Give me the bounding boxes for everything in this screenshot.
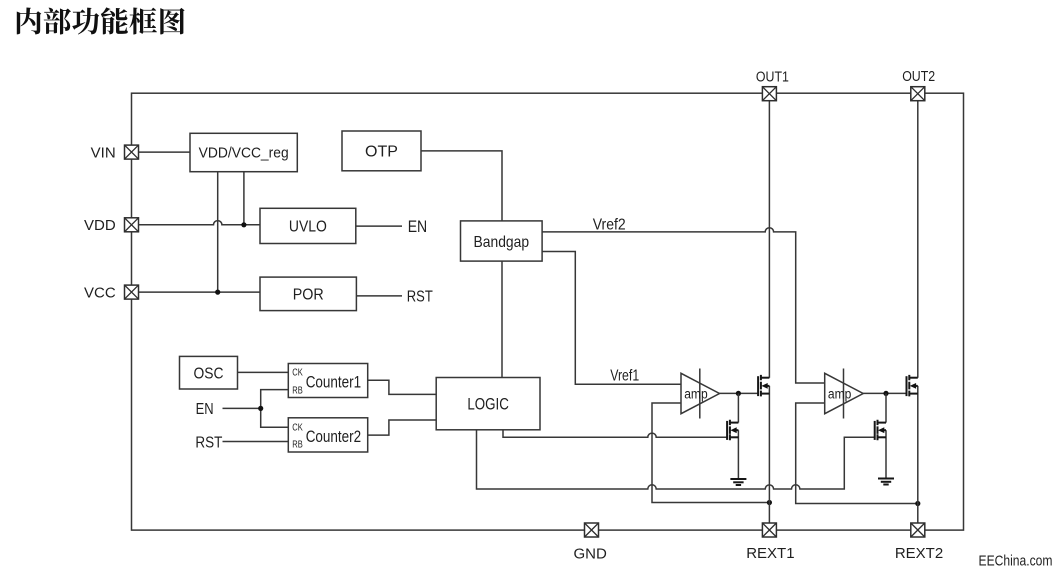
wire VDD to UVLO (hop over reg output): [139, 221, 261, 225]
pin OUT2: [911, 87, 925, 101]
block LOGIC: [436, 378, 540, 430]
pin REXT2: [911, 523, 925, 537]
svg-text:VDD: VDD: [84, 217, 116, 234]
transistor Q1 drain stub: [761, 377, 770, 379]
svg-text:Counter1: Counter1: [306, 374, 362, 392]
wire Q4 drain to amp2 output node: [885, 393, 887, 422]
svg-text:REXT2: REXT2: [895, 545, 943, 562]
pin OUT1: [762, 87, 776, 101]
wire amp U2 feedback from OUT2 node: [796, 403, 918, 504]
transistor Q2 body arrow: [730, 427, 738, 433]
wire Q4 source to ground: [885, 430, 887, 479]
svg-text:OSC: OSC: [194, 366, 224, 383]
wire amp U1 feedback from OUT1 node: [652, 403, 769, 503]
junction OUT2/feedback: [915, 501, 920, 506]
transistor Q4 drain stub: [878, 422, 887, 424]
block Bandgap: [461, 221, 543, 261]
junction OUT1/feedback: [767, 500, 772, 505]
transistor Q1 gate bar: [757, 376, 759, 396]
wire Counter2 to LOGIC: [368, 420, 437, 435]
transistor Q3 channel: [908, 375, 910, 397]
transistor Q1 body arrow: [761, 383, 769, 389]
wire Vref2 to amp U2 (hop over OUT1): [542, 228, 825, 383]
transistor Q3 body arrow: [910, 383, 918, 389]
wire reg output right (to VDD line): [243, 172, 245, 225]
wire OUT1 vertical upper: [768, 100, 770, 378]
title 内部功能框图: [17, 7, 185, 34]
svg-text:EN: EN: [408, 218, 428, 236]
svg-text:CK: CK: [292, 422, 303, 433]
wire VCC to POR: [139, 291, 261, 293]
svg-text:RB: RB: [292, 386, 303, 397]
wire OUT2 vertical lower to REXT2: [917, 386, 919, 523]
svg-text:POR: POR: [293, 287, 324, 304]
svg-text:Bandgap: Bandgap: [474, 234, 530, 251]
svg-text:Vref1: Vref1: [610, 368, 639, 385]
wire Vref1 to amp U1: [542, 252, 681, 385]
transistor Q3 source stub: [909, 393, 918, 395]
wire UVLO to EN: [356, 225, 402, 227]
block OSC: [180, 356, 238, 389]
svg-text:RB: RB: [292, 440, 303, 451]
wire Q2 drain to amp1 output node: [737, 393, 739, 422]
svg-text:OTP: OTP: [365, 144, 398, 161]
svg-text:amp: amp: [828, 387, 852, 402]
wire OUT2 vertical upper: [917, 100, 919, 378]
op-amp U1: [681, 369, 720, 419]
ground G2: [878, 479, 894, 485]
transistor Q3 gate bar: [906, 376, 908, 396]
wire VIN to VDD/VCC_reg: [139, 151, 191, 153]
wire OUT1 vertical lower to REXT1: [768, 386, 770, 523]
junction reg/VCC: [215, 290, 220, 295]
svg-text:EEChina.com: EEChina.com: [979, 553, 1053, 570]
junction EN node: [258, 406, 263, 411]
transistor Q4 body arrow: [878, 427, 886, 433]
junction amp2 out: [883, 391, 888, 396]
wire OTP to Bandgap: [421, 151, 502, 221]
block Counter2: [288, 418, 367, 452]
wire amp U1 output to Q1 gate: [720, 392, 759, 394]
wire Counter1 to LOGIC: [368, 380, 437, 394]
wire OSC to Counter1 CK: [238, 371, 289, 373]
block OTP: [342, 131, 421, 171]
transistor Q2 gate bar: [726, 421, 728, 440]
junction reg/VDD: [241, 222, 246, 227]
svg-text:OUT1: OUT1: [756, 68, 789, 85]
svg-text:VDD/VCC_reg: VDD/VCC_reg: [199, 146, 289, 162]
wire EN input: [223, 407, 261, 409]
wire EN branch to Counter1 RB and Counter2 CK: [261, 390, 289, 428]
svg-text:VIN: VIN: [91, 144, 116, 161]
pin VIN: [125, 145, 139, 159]
svg-text:VCC: VCC: [84, 284, 116, 301]
svg-text:Vref2: Vref2: [593, 217, 626, 234]
transistor Q1 channel: [760, 375, 762, 397]
wire amp U2 output to Q3 gate: [863, 392, 906, 394]
op-amp U2: [825, 369, 864, 419]
svg-text:GND: GND: [574, 546, 608, 563]
svg-text:EN: EN: [196, 401, 214, 418]
pin REXT1: [762, 523, 776, 537]
svg-text:amp: amp: [684, 387, 708, 402]
transistor Q2 channel: [729, 420, 731, 440]
svg-text:CK: CK: [292, 368, 303, 379]
transistor Q4 source stub: [878, 436, 887, 438]
pin VDD: [125, 218, 139, 232]
wire reg output left (to VCC line): [217, 172, 219, 292]
svg-text:Counter2: Counter2: [306, 428, 362, 446]
transistor Q4 gate bar: [874, 421, 876, 440]
svg-text:RST: RST: [407, 289, 433, 306]
svg-text:RST: RST: [195, 435, 222, 452]
transistor Q2 source stub: [730, 436, 739, 438]
wire POR to RST: [356, 295, 402, 297]
wire LOGIC to Q4 gate (hops over verticals): [477, 430, 875, 489]
transistor Q4 channel: [877, 420, 879, 440]
transistor Q2 drain stub: [730, 422, 739, 424]
svg-text:UVLO: UVLO: [289, 219, 327, 236]
block POR: [260, 277, 356, 311]
wire RST input to Counter2 RB: [223, 441, 289, 443]
transistor Q3 drain stub: [909, 377, 918, 379]
block Counter1: [288, 364, 367, 398]
block UVLO: [260, 208, 356, 243]
IC boundary: [132, 93, 964, 530]
svg-text:REXT1: REXT1: [746, 545, 794, 562]
svg-text:OUT2: OUT2: [902, 68, 935, 85]
transistor Q1 source stub: [761, 393, 770, 395]
pin GND: [585, 523, 599, 537]
ground G1: [730, 479, 746, 485]
wire Bandgap to LOGIC: [501, 261, 503, 377]
wire LOGIC to Q2 gate (hop over feedback): [503, 430, 727, 438]
wire Q2 source to ground: [737, 430, 739, 479]
junction amp1 out: [736, 391, 741, 396]
block VDD/VCC_reg: [190, 133, 297, 171]
svg-text:LOGIC: LOGIC: [467, 396, 509, 414]
pin VCC: [125, 285, 139, 299]
